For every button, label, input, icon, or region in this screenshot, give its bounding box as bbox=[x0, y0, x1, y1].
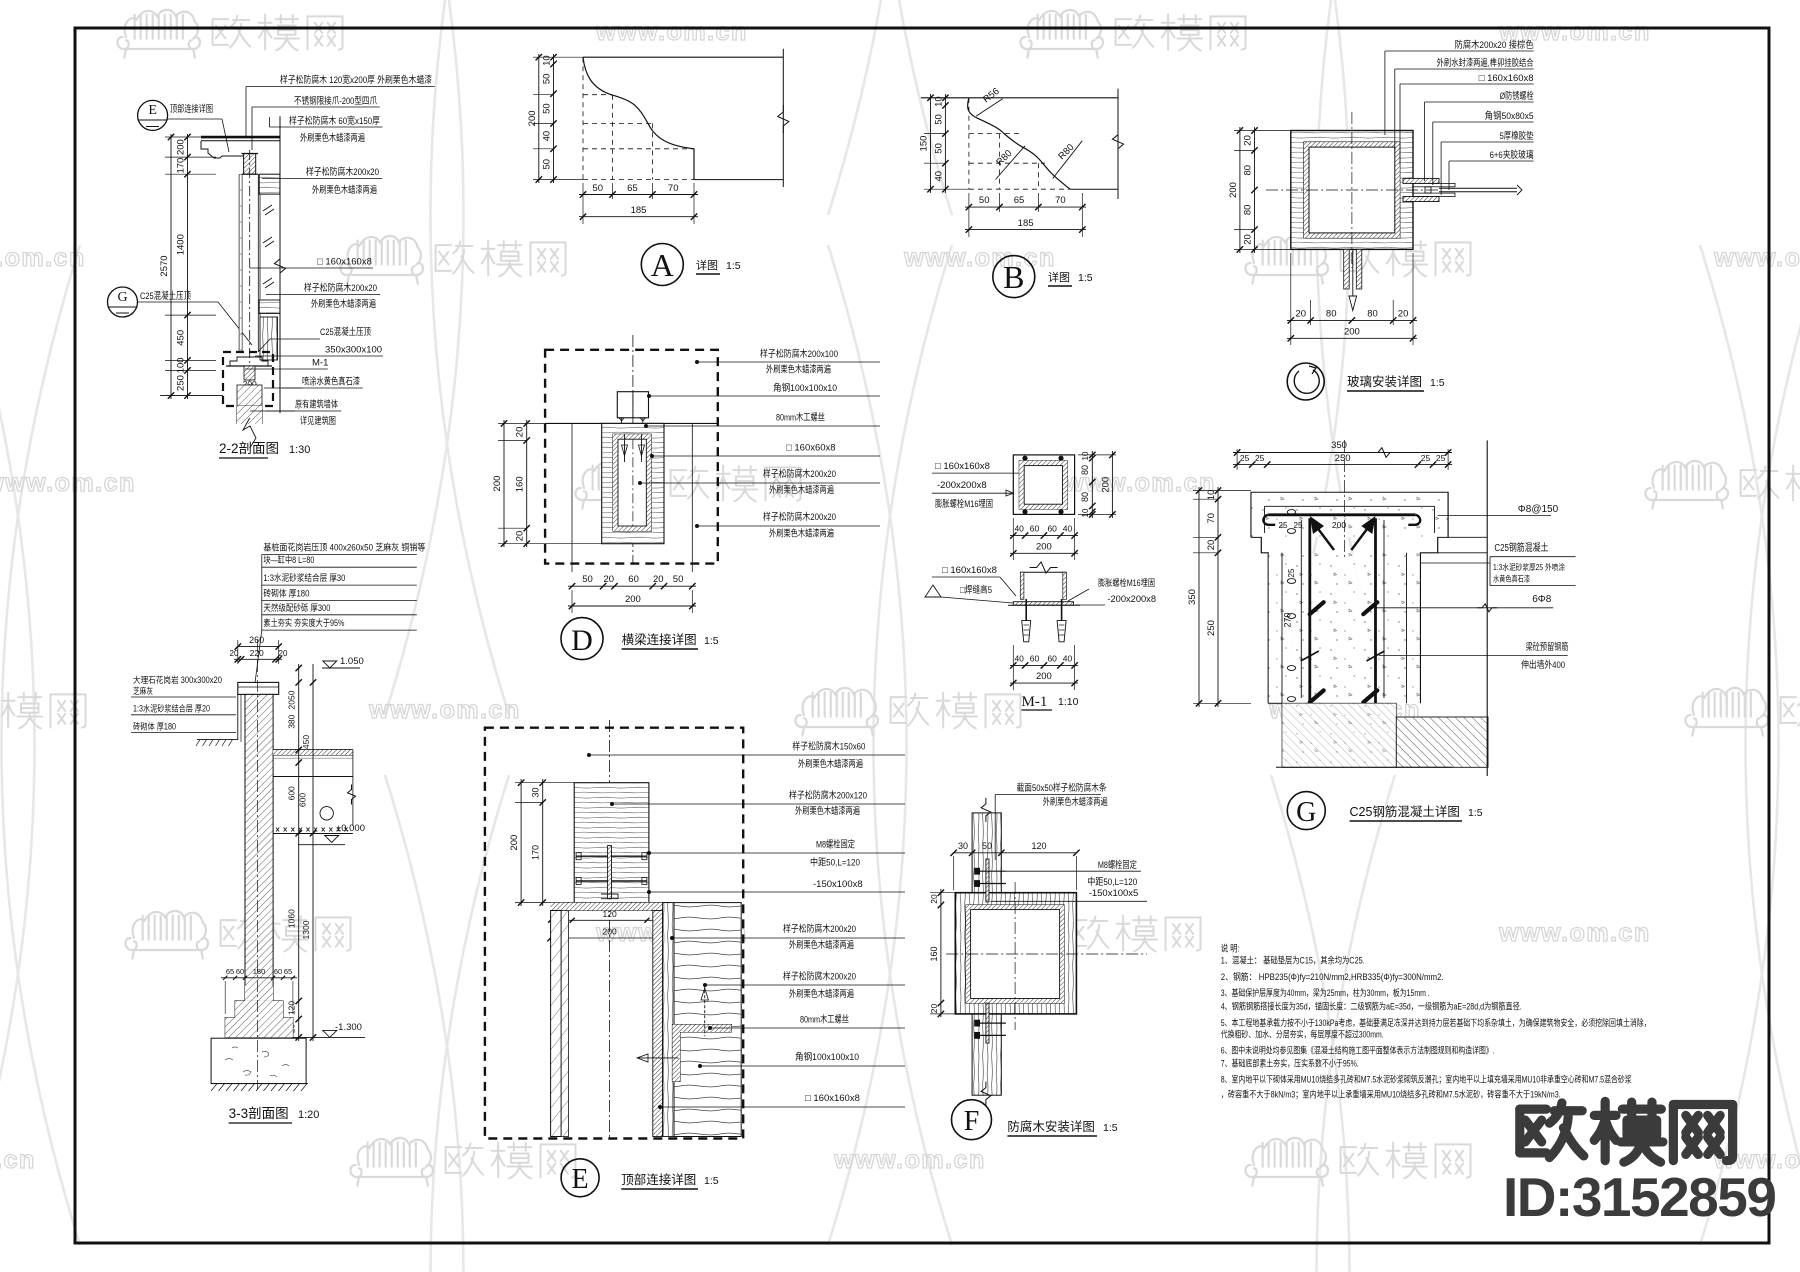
detail C bbox=[1291, 131, 1413, 250]
detail D caption bbox=[561, 618, 603, 660]
svg-text:中距50,L=120: 中距50,L=120 bbox=[1087, 876, 1137, 888]
svg-text:1:10: 1:10 bbox=[1058, 696, 1079, 708]
svg-text:膨胀螺栓M16埋固: 膨胀螺栓M16埋固 bbox=[1098, 577, 1155, 588]
svg-text:6+6夹胶玻璃: 6+6夹胶玻璃 bbox=[1490, 149, 1534, 161]
svg-text:200: 200 bbox=[509, 835, 520, 851]
svg-text:160: 160 bbox=[515, 476, 526, 492]
svg-text:不锈钢限接爪-200型四爪: 不锈钢限接爪-200型四爪 bbox=[294, 95, 377, 107]
svg-text:350: 350 bbox=[1187, 589, 1198, 605]
svg-text:20: 20 bbox=[515, 531, 526, 542]
svg-text:20: 20 bbox=[929, 894, 939, 904]
svg-text:80: 80 bbox=[1326, 309, 1337, 320]
svg-text:详图: 详图 bbox=[1048, 270, 1070, 284]
2-2 M-1 anchor bbox=[230, 357, 268, 366]
svg-text:1060: 1060 bbox=[287, 909, 297, 928]
svg-text:200: 200 bbox=[1036, 541, 1052, 552]
2-2 clamp bbox=[244, 154, 256, 175]
svg-text:40: 40 bbox=[1014, 524, 1024, 534]
svg-text:1.050: 1.050 bbox=[340, 656, 364, 667]
svg-text:5、本工程地基承载力按不小于130kPa考虑，基础要满足冻深: 5、本工程地基承载力按不小于130kPa考虑，基础要满足冻深并达到持力层若基础下… bbox=[1221, 1017, 1651, 1028]
svg-text:50: 50 bbox=[933, 143, 944, 154]
svg-text:样子松防腐木 120宽x200厚 外刷栗色木蜡漆: 样子松防腐木 120宽x200厚 外刷栗色木蜡漆 bbox=[280, 74, 432, 86]
E rail board bbox=[551, 902, 671, 904]
D angle steel bbox=[617, 392, 648, 418]
svg-text:样子松防腐木200x20: 样子松防腐木200x20 bbox=[306, 166, 379, 178]
svg-text:2570: 2570 bbox=[159, 255, 170, 276]
svg-text:±0.000: ±0.000 bbox=[336, 823, 365, 834]
svg-text:www.om.cn: www.om.cn bbox=[1713, 244, 1800, 272]
detail E caption bbox=[561, 1159, 599, 1197]
svg-text:F: F bbox=[964, 1106, 980, 1137]
svg-text:60: 60 bbox=[1030, 653, 1040, 663]
svg-text:C25混凝土压顶: C25混凝土压顶 bbox=[320, 326, 371, 338]
svg-text:70: 70 bbox=[1206, 513, 1217, 524]
svg-text:□ 160x160x8: □ 160x160x8 bbox=[942, 565, 997, 576]
svg-text:50: 50 bbox=[982, 841, 992, 851]
detail C caption bbox=[1287, 363, 1324, 400]
svg-text:20: 20 bbox=[1295, 309, 1306, 320]
svg-text:www.om.cn: www.om.cn bbox=[368, 696, 520, 724]
svg-text:20: 20 bbox=[929, 1004, 939, 1014]
svg-text:天然级配砂砾 厚300: 天然级配砂砾 厚300 bbox=[263, 602, 330, 613]
svg-text:170: 170 bbox=[176, 158, 187, 174]
svg-text:20: 20 bbox=[604, 574, 615, 585]
svg-text:外刷栗色木蜡漆两遍: 外刷栗色木蜡漆两遍 bbox=[769, 484, 834, 496]
svg-text:60: 60 bbox=[236, 967, 244, 976]
svg-text:25: 25 bbox=[1279, 521, 1288, 530]
svg-text:600: 600 bbox=[287, 786, 297, 800]
svg-text:10: 10 bbox=[1081, 508, 1090, 517]
svg-text:A: A bbox=[651, 247, 674, 283]
svg-text:C25钢筋混凝土详图: C25钢筋混凝土详图 bbox=[1350, 804, 1460, 819]
svg-text:250: 250 bbox=[176, 375, 187, 391]
svg-text:□ 160x160x8: □ 160x160x8 bbox=[805, 1093, 860, 1104]
2-2 top rail bbox=[201, 136, 280, 139]
svg-text:□ 160x160x8: □ 160x160x8 bbox=[317, 257, 372, 268]
svg-text:横梁连接详图: 横梁连接详图 bbox=[622, 632, 697, 647]
svg-text:样子松防腐木200x100: 样子松防腐木200x100 bbox=[760, 348, 838, 360]
svg-text:50: 50 bbox=[933, 114, 944, 125]
svg-text:□ 160x60x8: □ 160x60x8 bbox=[786, 442, 836, 453]
svg-text:1:30: 1:30 bbox=[289, 444, 310, 456]
svg-text:50: 50 bbox=[542, 103, 553, 114]
svg-text:6、图中未说明处均参见图集《混凝土结构施工图平面整体表示方法: 6、图中未说明处均参见图集《混凝土结构施工图平面整体表示方法制图规则和构造详图》… bbox=[1221, 1044, 1495, 1055]
svg-text:角钢100x100x10: 角钢100x100x10 bbox=[773, 382, 837, 394]
svg-text:-150x100x8: -150x100x8 bbox=[813, 879, 863, 890]
svg-text:www.om.cn: www.om.cn bbox=[1498, 919, 1650, 947]
svg-text:外刷栗色木蜡漆两遍: 外刷栗色木蜡漆两遍 bbox=[795, 805, 860, 817]
svg-text:2、钢筋： HPB235(Φ)fy=210N/mm2,H: 2、钢筋： HPB235(Φ)fy=210N/mm2,HRB335(Φ)fy=3… bbox=[1221, 971, 1444, 982]
D dims bbox=[526, 420, 528, 547]
svg-text:70: 70 bbox=[1055, 195, 1066, 206]
svg-text:80: 80 bbox=[1243, 205, 1254, 216]
svg-text:大理石花岗岩 300x300x20: 大理石花岗岩 300x300x20 bbox=[133, 674, 222, 685]
detail B caption bbox=[993, 256, 1035, 298]
svg-text:，砖容重不大于8kN/m3；室内地平以上承重墙采用MU10烧: ，砖容重不大于8kN/m3；室内地平以上承重墙采用MU10烧结多孔砖和M7.5水… bbox=[1221, 1088, 1561, 1099]
svg-text:200: 200 bbox=[1344, 327, 1360, 338]
3-3 right slab bbox=[273, 749, 353, 751]
svg-text:20: 20 bbox=[1206, 540, 1217, 551]
detail F caption bbox=[952, 1100, 992, 1140]
svg-text:M-1: M-1 bbox=[312, 358, 328, 369]
svg-text:220: 220 bbox=[250, 648, 264, 658]
svg-text:1:5: 1:5 bbox=[1078, 272, 1093, 284]
2-2 lower boards bbox=[259, 300, 280, 314]
svg-text:80: 80 bbox=[1367, 309, 1378, 320]
svg-text:70: 70 bbox=[668, 183, 679, 194]
svg-text:www.om.cn: www.om.cn bbox=[0, 244, 86, 272]
svg-text:80: 80 bbox=[1080, 465, 1090, 475]
svg-text:170: 170 bbox=[531, 845, 541, 860]
svg-text:基桩面花岗岩压顶 400x260x50 芝麻灰 铜销等: 基桩面花岗岩压顶 400x260x50 芝麻灰 铜销等 bbox=[263, 542, 425, 553]
detail G bbox=[1233, 452, 1452, 454]
E top beam bbox=[574, 783, 649, 903]
svg-text:1300: 1300 bbox=[301, 920, 311, 939]
svg-text:60: 60 bbox=[1047, 653, 1057, 663]
svg-text:外刷栗色木蜡漆两遍: 外刷栗色木蜡漆两遍 bbox=[789, 988, 854, 1000]
detail A caption bbox=[641, 244, 683, 286]
svg-text:膨胀螺栓M16埋固: 膨胀螺栓M16埋固 bbox=[935, 498, 993, 510]
F bolts bottom bbox=[986, 1003, 989, 1043]
svg-text:外刷栗色木蜡漆两遍: 外刷栗色木蜡漆两遍 bbox=[766, 364, 831, 376]
svg-text:顶部连接详图: 顶部连接详图 bbox=[621, 1172, 696, 1187]
svg-text:6Φ8: 6Φ8 bbox=[1532, 594, 1552, 605]
detail G caption bbox=[1287, 792, 1325, 830]
svg-text:5厚橡胶垫: 5厚橡胶垫 bbox=[1500, 130, 1534, 142]
svg-text:梁砼预留钢筋: 梁砼预留钢筋 bbox=[1526, 641, 1569, 653]
svg-text:4、钢筋钢筋搭接长度为35d，锚固长度：二级钢筋为aE=35: 4、钢筋钢筋搭接长度为35d，锚固长度：二级钢筋为aE=35d，一级钢筋为aE=… bbox=[1221, 1000, 1522, 1011]
svg-text:样子松防腐木150x60: 样子松防腐木150x60 bbox=[792, 740, 865, 752]
3-3 wall bbox=[238, 682, 279, 694]
svg-text:1:5: 1:5 bbox=[726, 260, 741, 272]
svg-text:8、室内地平以下砌体采用MU10烧结多孔砖和M7.5水泥砂浆: 8、室内地平以下砌体采用MU10烧结多孔砖和M7.5水泥砂浆砌筑反潮孔；室内地平… bbox=[1221, 1074, 1632, 1085]
svg-text:25: 25 bbox=[1240, 453, 1250, 463]
svg-text:200: 200 bbox=[603, 927, 617, 937]
svg-text:65: 65 bbox=[1014, 195, 1025, 206]
om.cn logo bbox=[1520, 1103, 1584, 1158]
svg-text:样子松防腐木 60宽x150厚: 样子松防腐木 60宽x150厚 bbox=[289, 115, 380, 127]
svg-text:砖砌体 厚180: 砖砌体 厚180 bbox=[263, 588, 309, 599]
svg-text:防腐木200x20 接棕色: 防腐木200x20 接棕色 bbox=[1455, 39, 1534, 51]
svg-text:40: 40 bbox=[1063, 524, 1073, 534]
D wood beam bbox=[602, 423, 664, 543]
svg-text:1:3水泥砂浆厚25 外喷涂: 1:3水泥砂浆厚25 外喷涂 bbox=[1493, 562, 1565, 572]
svg-text:20: 20 bbox=[653, 574, 664, 585]
svg-text:350x300x100: 350x300x100 bbox=[325, 345, 382, 356]
svg-text:喷涂水黄色真石漆: 喷涂水黄色真石漆 bbox=[302, 376, 360, 388]
svg-text:60: 60 bbox=[628, 574, 639, 585]
svg-text:外刷水封漆两遍,榫卯挂胶结合: 外刷水封漆两遍,榫卯挂胶结合 bbox=[1437, 57, 1534, 69]
svg-text:100: 100 bbox=[176, 357, 187, 373]
svg-text:270: 270 bbox=[1283, 612, 1293, 627]
svg-text:www.om.cn: www.om.cn bbox=[595, 18, 747, 46]
svg-text:防腐木安装详图: 防腐木安装详图 bbox=[1007, 1119, 1095, 1134]
svg-text:Φ8@150: Φ8@150 bbox=[1518, 504, 1559, 515]
svg-text:40: 40 bbox=[1063, 653, 1073, 663]
svg-text:外刷栗色木蜡漆两遍: 外刷栗色木蜡漆两遍 bbox=[312, 184, 377, 196]
svg-text:20: 20 bbox=[1398, 309, 1409, 320]
svg-text:详图: 详图 bbox=[696, 258, 718, 272]
svg-text:120: 120 bbox=[603, 909, 617, 919]
svg-text:2050: 2050 bbox=[287, 690, 297, 709]
svg-text:1:5: 1:5 bbox=[704, 1175, 719, 1187]
svg-text:120: 120 bbox=[1031, 841, 1046, 851]
svg-text:截面50x50样子松防腐木条: 截面50x50样子松防腐木条 bbox=[1017, 782, 1107, 794]
svg-text:50: 50 bbox=[592, 183, 603, 194]
svg-text:25: 25 bbox=[1421, 453, 1431, 463]
svg-text:200: 200 bbox=[1228, 182, 1239, 198]
svg-text:1:3水泥砂浆结合层 厚30: 1:3水泥砂浆结合层 厚30 bbox=[263, 572, 345, 583]
svg-text:185: 185 bbox=[1018, 218, 1034, 229]
svg-text:角钢100x100x10: 角钢100x100x10 bbox=[795, 1051, 859, 1063]
svg-text:E: E bbox=[572, 1164, 589, 1195]
svg-text:65: 65 bbox=[226, 967, 234, 976]
M-1 plan bbox=[1013, 455, 1074, 515]
svg-text:E: E bbox=[148, 103, 157, 118]
svg-text:C25混凝土压顶: C25混凝土压顶 bbox=[140, 290, 191, 302]
svg-text:水黄色真石漆: 水黄色真石漆 bbox=[1493, 574, 1530, 584]
svg-text:□ 160x160x8: □ 160x160x8 bbox=[935, 461, 990, 472]
svg-text:80mm木工螺丝: 80mm木工螺丝 bbox=[800, 1014, 849, 1026]
svg-text:M8螺栓固定: M8螺栓固定 bbox=[816, 839, 855, 851]
svg-text:60: 60 bbox=[1047, 524, 1057, 534]
svg-text:50: 50 bbox=[673, 574, 684, 585]
G ground bbox=[1282, 703, 1396, 767]
svg-text:C25钢筋混凝土: C25钢筋混凝土 bbox=[1494, 541, 1548, 554]
svg-text:样子松防腐木200x20: 样子松防腐木200x20 bbox=[304, 282, 377, 294]
svg-text:外刷栗色木蜡漆两遍: 外刷栗色木蜡漆两遍 bbox=[311, 298, 376, 310]
svg-text:180: 180 bbox=[253, 967, 266, 976]
svg-text:1:5: 1:5 bbox=[1430, 377, 1445, 389]
svg-text:-1.300: -1.300 bbox=[335, 1022, 362, 1033]
svg-text:150: 150 bbox=[919, 136, 930, 152]
svg-text:20: 20 bbox=[1243, 135, 1254, 146]
svg-text:380: 380 bbox=[287, 714, 297, 728]
C anchor bolt bbox=[1344, 249, 1350, 289]
D steel tube bbox=[613, 434, 651, 531]
svg-text:样子松防腐木200x20: 样子松防腐木200x20 bbox=[783, 970, 856, 982]
svg-text:外刷栗色木蜡漆两遍: 外刷栗色木蜡漆两遍 bbox=[1043, 796, 1108, 808]
svg-text:160: 160 bbox=[929, 946, 939, 961]
detail B bbox=[921, 97, 1118, 99]
svg-text:30: 30 bbox=[958, 841, 968, 851]
F bolts top bbox=[986, 859, 989, 902]
svg-text:3、基础保护层厚度为40mm，梁为25mm，柱为30mm，板: 3、基础保护层厚度为40mm，梁为25mm，柱为30mm，板为15mm . bbox=[1221, 987, 1430, 998]
svg-text:30: 30 bbox=[531, 787, 541, 797]
svg-text:200: 200 bbox=[1100, 477, 1111, 493]
svg-text:1400: 1400 bbox=[176, 234, 187, 255]
svg-text:代换粗砂、加水、分层夯实，每层厚度不超过300mm.: 代换粗砂、加水、分层夯实，每层厚度不超过300mm. bbox=[1221, 1028, 1384, 1039]
svg-text:玻璃安装详图: 玻璃安装详图 bbox=[1347, 374, 1422, 389]
svg-text:1、混凝土： 基础垫层为C15，其余均为C25.: 1、混凝土： 基础垫层为C15，其余均为C25. bbox=[1221, 954, 1365, 965]
svg-text:外刷栗色木蜡漆两遍: 外刷栗色木蜡漆两遍 bbox=[769, 528, 834, 540]
svg-text:顶部连接详图: 顶部连接详图 bbox=[170, 103, 213, 115]
svg-text:185: 185 bbox=[631, 205, 647, 216]
svg-text:素土夯实 夯实度大于95%: 素土夯实 夯实度大于95% bbox=[263, 617, 344, 628]
svg-text:www.om.cn: www.om.cn bbox=[833, 1146, 985, 1174]
detail F bbox=[972, 813, 1001, 1095]
svg-text:原有建筑墙体: 原有建筑墙体 bbox=[295, 399, 338, 411]
svg-text:200: 200 bbox=[527, 110, 538, 126]
G rebar bbox=[1268, 513, 1415, 516]
3-3 pad bbox=[211, 1038, 306, 1083]
M-1 elevation bbox=[1020, 571, 1066, 573]
2-2 left dims bbox=[187, 134, 189, 399]
svg-text:20: 20 bbox=[279, 649, 288, 658]
svg-text:样子松防腐木200x20: 样子松防腐木200x20 bbox=[783, 923, 856, 935]
marker E bbox=[138, 100, 168, 130]
svg-text:样子松防腐木200x20: 样子松防腐木200x20 bbox=[763, 511, 836, 523]
E steel tube wall bbox=[653, 911, 663, 1137]
svg-text:□ 160x160x8: □ 160x160x8 bbox=[1479, 73, 1534, 84]
svg-text:50: 50 bbox=[542, 159, 553, 170]
svg-text:块—缸中8 L=80: 块—缸中8 L=80 bbox=[263, 554, 314, 565]
E angle steel bbox=[672, 1025, 731, 1082]
svg-text:M8螺栓固定: M8螺栓固定 bbox=[1098, 859, 1137, 871]
svg-text:60: 60 bbox=[274, 967, 282, 976]
svg-text:50: 50 bbox=[582, 574, 593, 585]
G concrete outline bbox=[1251, 492, 1448, 703]
svg-text:20: 20 bbox=[1243, 234, 1254, 245]
svg-text:65: 65 bbox=[627, 183, 638, 194]
svg-text:120: 120 bbox=[287, 1001, 297, 1015]
svg-text:3-3剖面图: 3-3剖面图 bbox=[229, 1106, 289, 1121]
svg-text:G: G bbox=[1296, 797, 1316, 828]
svg-text:中距50,L=120: 中距50,L=120 bbox=[810, 856, 860, 868]
svg-text:40: 40 bbox=[933, 171, 944, 182]
svg-text:25: 25 bbox=[1436, 453, 1446, 463]
svg-text:-200x200x8: -200x200x8 bbox=[937, 480, 987, 491]
C clamp assembly bbox=[1403, 178, 1439, 183]
svg-text:25: 25 bbox=[1287, 568, 1296, 577]
svg-text:40: 40 bbox=[1014, 653, 1024, 663]
svg-text:-150x100x5: -150x100x5 bbox=[1089, 888, 1139, 899]
svg-text:说 明:: 说 明: bbox=[1221, 943, 1240, 954]
svg-text:60: 60 bbox=[1030, 524, 1040, 534]
svg-text:25: 25 bbox=[1294, 521, 1303, 530]
3-3 levels bbox=[323, 661, 337, 668]
svg-text:80mm木工螺丝: 80mm木工螺丝 bbox=[776, 412, 825, 424]
svg-text:G: G bbox=[117, 290, 127, 305]
svg-text:ID:3152859: ID:3152859 bbox=[1503, 1166, 1775, 1228]
svg-text:25: 25 bbox=[1255, 453, 1265, 463]
E left post bbox=[551, 911, 562, 1137]
svg-text:1:3水泥砂浆结合层 厚20: 1:3水泥砂浆结合层 厚20 bbox=[133, 703, 210, 714]
svg-text:样子松防腐木200x20: 样子松防腐木200x20 bbox=[763, 468, 836, 480]
svg-text:200: 200 bbox=[492, 476, 503, 492]
E bolts bbox=[576, 855, 647, 857]
svg-text:10: 10 bbox=[1206, 490, 1217, 501]
svg-text:1:5: 1:5 bbox=[704, 635, 719, 647]
E wood plank bbox=[663, 903, 674, 1137]
svg-text:20: 20 bbox=[515, 427, 526, 438]
3-3 footing bbox=[225, 1001, 293, 1038]
G plaster lines bbox=[1265, 505, 1435, 507]
svg-text:80: 80 bbox=[1080, 492, 1090, 502]
svg-text:伸出墙外400: 伸出墙外400 bbox=[1521, 659, 1565, 671]
2-2 existing wall bbox=[236, 406, 238, 424]
svg-text:角钢50x80x5: 角钢50x80x5 bbox=[1485, 110, 1534, 122]
marker G bbox=[108, 287, 138, 317]
svg-text:260: 260 bbox=[249, 635, 264, 645]
2-2 glass line bbox=[279, 116, 281, 413]
2-2 post bbox=[238, 174, 240, 353]
svg-text:www.om.cn: www.om.cn bbox=[0, 469, 136, 497]
svg-text:1:5: 1:5 bbox=[1468, 807, 1483, 819]
detail A bbox=[583, 56, 783, 58]
svg-text:40: 40 bbox=[542, 131, 553, 142]
svg-text:80: 80 bbox=[1243, 165, 1254, 176]
svg-text:50: 50 bbox=[979, 195, 990, 206]
svg-text:□焊缝高5: □焊缝高5 bbox=[960, 584, 992, 596]
detail E bbox=[485, 728, 743, 1139]
svg-text:D: D bbox=[571, 624, 593, 657]
watermark logos bbox=[117, 10, 200, 58]
svg-text:2-2剖面图: 2-2剖面图 bbox=[219, 441, 279, 456]
svg-text:50: 50 bbox=[542, 74, 553, 85]
svg-text:1:20: 1:20 bbox=[298, 1109, 319, 1121]
3-3 dims bbox=[298, 664, 300, 1041]
svg-text:外刷栗色木蜡漆两遍: 外刷栗色木蜡漆两遍 bbox=[789, 939, 854, 951]
svg-text:200: 200 bbox=[176, 139, 187, 155]
svg-text:200: 200 bbox=[1036, 671, 1052, 682]
svg-text:200: 200 bbox=[625, 594, 641, 605]
svg-text:450: 450 bbox=[176, 330, 187, 346]
svg-text:Ø防锈螺栓: Ø防锈螺栓 bbox=[1500, 90, 1534, 102]
svg-text:外刷栗色木蜡漆两遍: 外刷栗色木蜡漆两遍 bbox=[798, 758, 863, 770]
svg-text:详见建筑图: 详见建筑图 bbox=[300, 415, 336, 427]
svg-text:M-1: M-1 bbox=[1022, 694, 1048, 710]
svg-text:65: 65 bbox=[284, 967, 292, 976]
svg-text:-200x200x8: -200x200x8 bbox=[1107, 594, 1156, 604]
2-2 dashed box bbox=[223, 352, 273, 406]
F beam bbox=[955, 893, 1076, 1014]
svg-text:450: 450 bbox=[301, 735, 311, 749]
svg-text:样子松防腐木200x120: 样子松防腐木200x120 bbox=[789, 789, 867, 801]
svg-text:250: 250 bbox=[1206, 620, 1217, 636]
svg-text:10: 10 bbox=[1081, 451, 1090, 460]
2-2 wood board bbox=[259, 174, 280, 194]
svg-text:B: B bbox=[1003, 259, 1024, 295]
svg-text:7、基础底部素土夯实，压实系数不小于95%.: 7、基础底部素土夯实，压实系数不小于95%. bbox=[1221, 1058, 1359, 1069]
svg-text:www.om.cn: www.om.cn bbox=[0, 1146, 36, 1174]
svg-text:砖砌体 厚180: 砖砌体 厚180 bbox=[133, 720, 176, 731]
svg-text:外刷栗色木蜡漆两遍: 外刷栗色木蜡漆两遍 bbox=[300, 132, 365, 144]
svg-text:250: 250 bbox=[1335, 453, 1351, 464]
svg-text:200: 200 bbox=[1332, 520, 1346, 530]
detail D bbox=[545, 350, 718, 564]
svg-text:芝麻灰: 芝麻灰 bbox=[133, 685, 153, 696]
svg-text:1:5: 1:5 bbox=[1103, 1122, 1118, 1134]
